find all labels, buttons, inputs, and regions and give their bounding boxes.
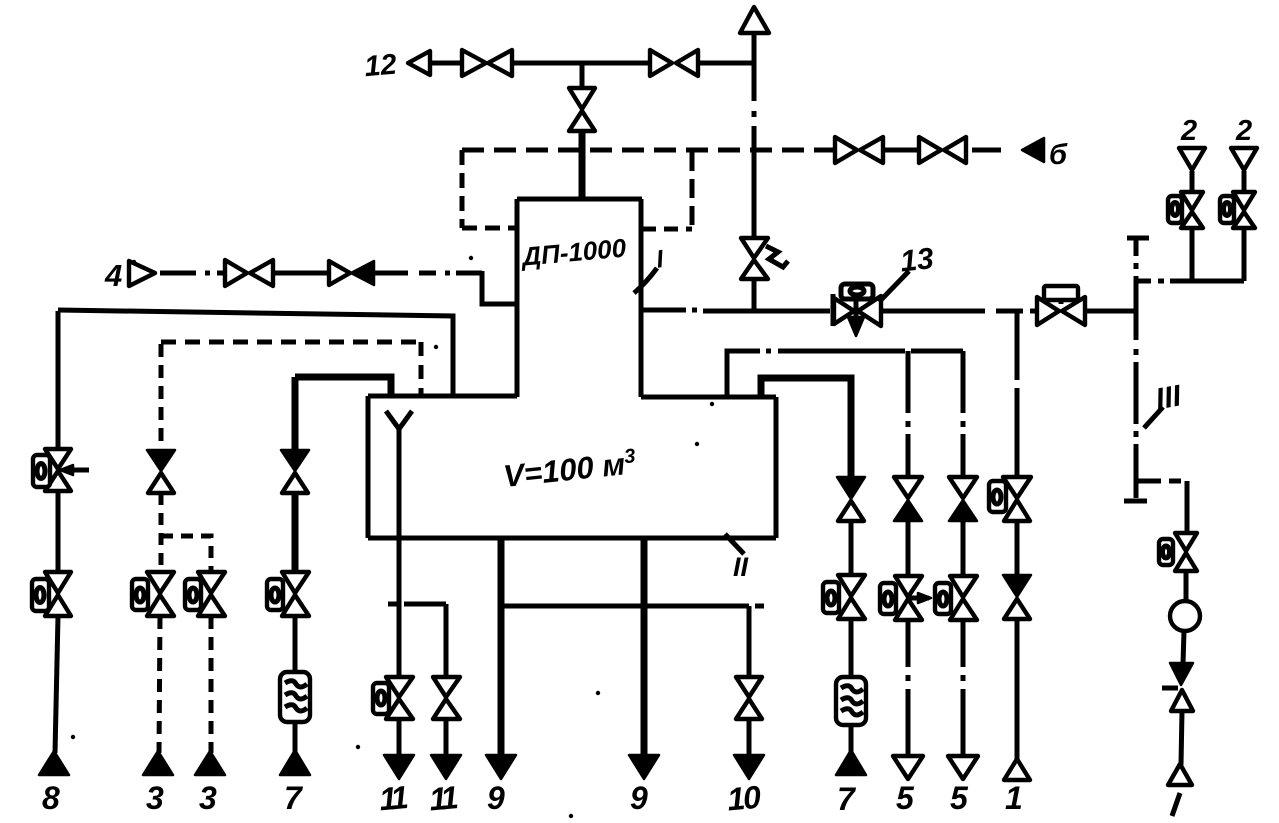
- wire: [293, 616, 298, 673]
- valve 11a: [386, 677, 413, 697]
- valve 11b: [433, 677, 460, 697]
- ground flare 7a: [280, 750, 310, 775]
- valve on line 12 right: [650, 50, 672, 76]
- ground flare 7b: [836, 750, 866, 775]
- riser 7a: [292, 377, 299, 450]
- dashed shoulder to neck left: [462, 226, 517, 231]
- drop 9b: [641, 538, 648, 756]
- wire: [849, 725, 854, 752]
- drop 9a: [498, 538, 505, 756]
- top valve 7a: [281, 450, 309, 471]
- wire: [56, 491, 61, 572]
- middle valve 3b: [198, 572, 225, 593]
- wire: [747, 719, 752, 756]
- dashed branch to 3b: [161, 536, 211, 572]
- svg-text:3: 3: [146, 780, 164, 816]
- vent riser top: [752, 34, 757, 63]
- relief valve line down: [752, 239, 757, 240]
- box 2b: [1220, 196, 1234, 223]
- wire: [1183, 631, 1184, 664]
- svg-text:5: 5: [950, 780, 969, 816]
- wire: [961, 521, 966, 576]
- svg-text:3: 3: [199, 780, 217, 816]
- riser from line 12 down (dash-dot): [752, 63, 757, 101]
- dashed shoulder to neck right: [642, 227, 692, 232]
- svg-text:4: 4: [104, 258, 122, 293]
- wire: [972, 148, 1001, 153]
- label 1 right: [1172, 793, 1180, 816]
- riser 10: [747, 606, 752, 677]
- dashed wire: [159, 493, 164, 572]
- dashed header to column 3: [161, 340, 421, 345]
- flow meter circle: [1170, 601, 1200, 631]
- bump riser 7b: [761, 378, 851, 477]
- svg-text:7: 7: [837, 781, 857, 817]
- middle valve 8: [45, 572, 71, 593]
- drain arrow 10: [734, 755, 764, 779]
- top valve 8: [45, 449, 71, 469]
- hose triangle line 4: [129, 261, 155, 286]
- header to column 8: [58, 310, 453, 396]
- box 2a: [1168, 196, 1182, 223]
- valve with actuator box: [1037, 297, 1059, 325]
- check valve right: [1170, 663, 1193, 685]
- riser 2a: [1190, 228, 1195, 281]
- arrow out of valve 5a: [908, 596, 929, 601]
- dashed header line: [462, 148, 835, 153]
- svg-text:III: III: [1153, 379, 1184, 416]
- branch wire y=281: [1136, 279, 1151, 284]
- dashed riser 3a: [159, 344, 164, 450]
- dashed wire: [209, 616, 214, 753]
- valve 10: [736, 677, 762, 697]
- stub 2a: [1190, 171, 1195, 192]
- svg-text:7: 7: [284, 780, 304, 816]
- arrow into valve 8: [64, 468, 89, 473]
- funnel Y inside vessel: [386, 411, 412, 429]
- vessel body: [368, 394, 517, 399]
- svg-text:2: 2: [1180, 115, 1197, 147]
- wire: [698, 61, 754, 66]
- wire: [882, 309, 985, 314]
- hose triangle 1: [1004, 759, 1030, 780]
- vent triangle top: [740, 7, 769, 33]
- valve on line 12 left: [462, 50, 486, 76]
- check valve line 4 (right half filled): [329, 261, 350, 285]
- wire dash-dot: [374, 271, 408, 276]
- svg-text:9: 9: [487, 780, 505, 816]
- open drain funnel 5b: [948, 756, 978, 779]
- wire: [430, 61, 462, 66]
- top valve 3a: [147, 450, 175, 471]
- wire: [849, 521, 854, 575]
- dash-dot vertical: [1134, 238, 1139, 256]
- flame arrester 7a: [280, 672, 310, 722]
- funnel 2b: [1231, 148, 1257, 170]
- wire: [906, 521, 911, 576]
- wire dash tail: [755, 604, 764, 609]
- svg-text:1: 1: [1005, 780, 1023, 816]
- funnel 2a: [1179, 148, 1205, 170]
- middle valve 5b: [950, 576, 977, 597]
- svg-text:12: 12: [363, 49, 398, 84]
- top cap: [1127, 236, 1149, 241]
- dash-dot wire: [906, 620, 911, 667]
- wire: [512, 61, 650, 66]
- branch wire: [1136, 479, 1161, 484]
- riser 11b: [444, 604, 449, 677]
- dash-dot wire: [961, 620, 966, 667]
- valve on line б left: [835, 137, 857, 163]
- step down to neck: [482, 271, 517, 304]
- svg-text:13: 13: [899, 242, 936, 278]
- thick pipe into vessel neck: [579, 131, 586, 201]
- dashed drop right: [690, 152, 695, 229]
- wire: [1085, 309, 1134, 314]
- label I with leader: [634, 268, 657, 293]
- wire: [55, 616, 58, 753]
- svg-text:11: 11: [428, 779, 459, 817]
- middle valve 3a: [147, 572, 174, 593]
- svg-text:V=100 м3: V=100 м3: [502, 445, 638, 494]
- wire from neck: [643, 308, 686, 313]
- wire: [752, 279, 757, 311]
- wire: [1181, 711, 1182, 765]
- top valve 7b: [837, 477, 865, 499]
- wire: [292, 493, 299, 572]
- valve vertical below tee: [569, 88, 595, 109]
- riser 5a: [906, 351, 911, 413]
- riser 8: [56, 311, 61, 449]
- tee stub down from line 12: [580, 63, 585, 88]
- svg-text:2: 2: [1235, 115, 1252, 147]
- label II with leader: [725, 534, 744, 554]
- ground flare 3a: [143, 751, 173, 775]
- wire: [273, 271, 329, 276]
- dash-dot header: [727, 351, 760, 397]
- drain header: [501, 604, 749, 609]
- svg-text:8: 8: [42, 780, 60, 816]
- valve 2b: [1233, 192, 1255, 210]
- valve 13: [831, 294, 836, 326]
- wire: [1015, 521, 1020, 575]
- middle valve 7a: [282, 572, 309, 593]
- thick header to column 7 left: [295, 377, 391, 396]
- label 13 with leader: [879, 271, 909, 302]
- middle valve 7b: [838, 575, 865, 596]
- valve on line б right: [919, 137, 941, 163]
- relief valve: [741, 238, 768, 258]
- riser 1: [1015, 311, 1020, 380]
- svg-text:9: 9: [630, 780, 648, 816]
- bottom cap: [1124, 499, 1147, 504]
- vessel neck walls: [517, 197, 642, 202]
- valve on line 4: [225, 260, 247, 286]
- svg-text:ДП-1000: ДП-1000: [519, 233, 628, 272]
- wire: [883, 148, 919, 153]
- middle valve 1 (check): [1003, 575, 1031, 597]
- wire: [849, 619, 854, 677]
- hose triangle bottom right: [1168, 764, 1192, 785]
- funnel stem down (line 11): [397, 429, 402, 677]
- dashed drop left: [460, 150, 465, 228]
- wire: [397, 719, 402, 756]
- drain arrow 9a: [486, 755, 516, 779]
- drain arrow 11a: [384, 755, 414, 779]
- svg-text:10: 10: [726, 779, 763, 818]
- top valve 5a: [894, 477, 922, 498]
- valve 2a: [1181, 192, 1203, 210]
- stub 2b: [1242, 171, 1247, 192]
- svg-text:11: 11: [378, 779, 409, 817]
- wire: [293, 722, 298, 752]
- ground flare 3b: [195, 751, 225, 775]
- drain arrow 11b: [431, 755, 461, 779]
- label III with leader: [1144, 407, 1163, 428]
- middle valve 5a: [895, 576, 922, 597]
- ground flare 8: [39, 751, 69, 775]
- svg-text:II: II: [733, 552, 749, 582]
- riser 2b: [1242, 228, 1247, 281]
- wire: [1015, 619, 1020, 761]
- wire: [1184, 571, 1189, 602]
- svg-text:5: 5: [896, 780, 915, 816]
- hose connection triangle left (line 12): [408, 51, 430, 75]
- drain arrow 9b: [629, 755, 659, 779]
- flame arrester 7b: [836, 677, 866, 725]
- scan specks: [469, 256, 473, 260]
- stub between 11 lines: [388, 602, 398, 607]
- wire: [444, 719, 449, 756]
- filled arrow б: [1022, 138, 1044, 162]
- wire dash-dot: [160, 271, 196, 276]
- open drain funnel 5a: [893, 756, 923, 779]
- top valve 1: [1003, 477, 1031, 498]
- svg-text:б: б: [1049, 139, 1068, 171]
- riser 5b: [961, 351, 966, 413]
- top valve 5b: [949, 477, 977, 498]
- dashed wire: [159, 616, 160, 753]
- valve with box right: [1175, 533, 1197, 551]
